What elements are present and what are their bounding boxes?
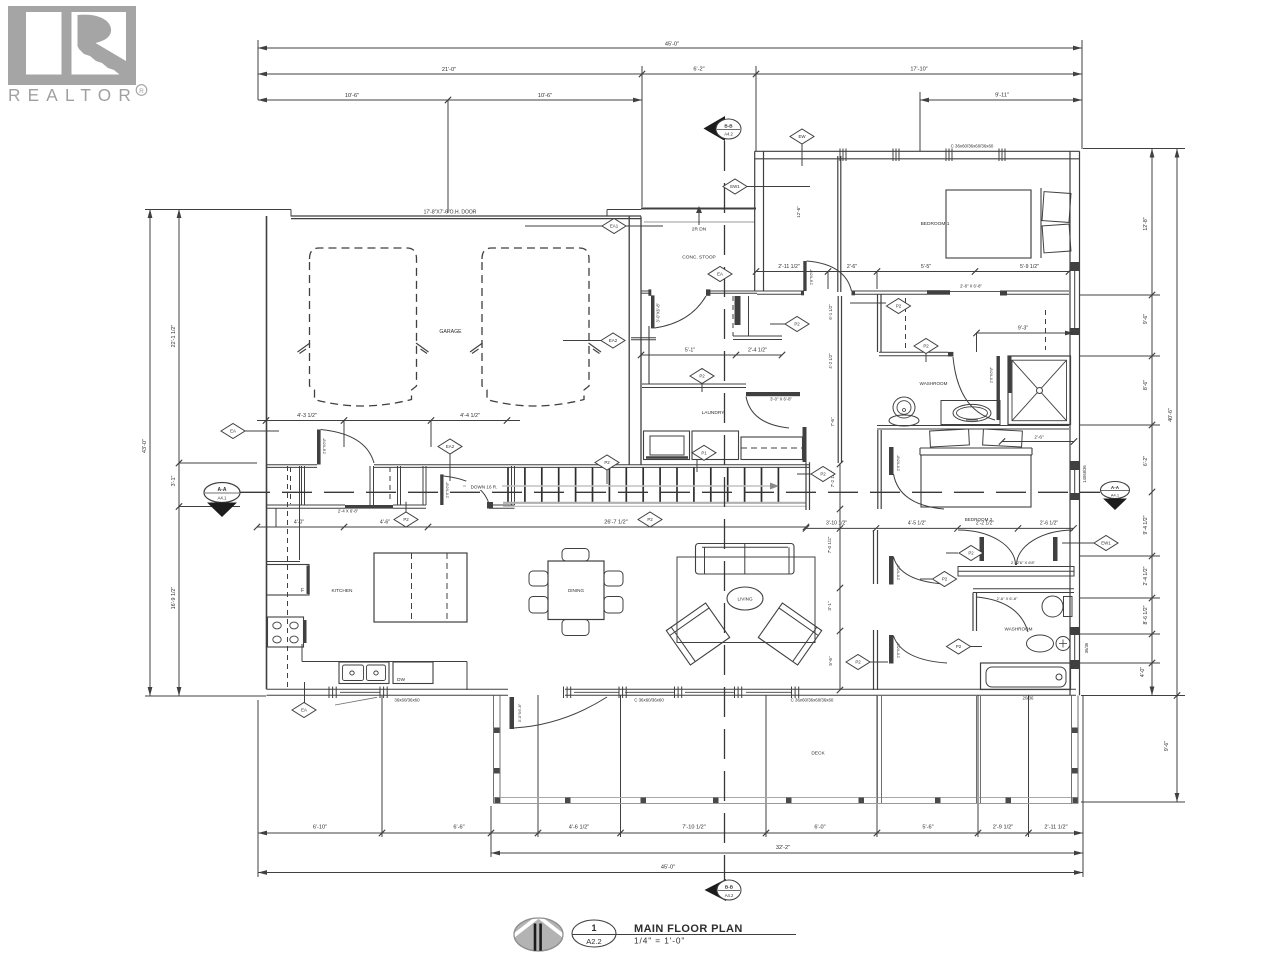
bedroom2 left wall and door (878, 430, 944, 509)
svg-text:C 36x60/36x60/36x60: C 36x60/36x60/36x60 (951, 144, 994, 149)
svg-text:P2: P2 (820, 472, 826, 477)
bedroom2 window dim 2'-6 (999, 435, 1077, 445)
svg-text:6'-6": 6'-6" (453, 825, 464, 831)
mudroom door to stairs (440, 466, 514, 505)
car 1 dashed outline (298, 248, 429, 406)
bedroom1 dim row 2'-11 1/2 etc (753, 264, 1072, 289)
svg-text:LAUNDRY: LAUNDRY (702, 410, 726, 416)
section marker A-A left (204, 483, 240, 518)
svg-text:22'-1 1/2": 22'-1 1/2" (171, 325, 177, 348)
garage top wall with O.H. door (267, 210, 642, 690)
svg-text:2'-4 1/2": 2'-4 1/2" (1143, 566, 1149, 585)
mud closet stub wall (631, 338, 656, 340)
svg-text:9'-11": 9'-11" (995, 93, 1009, 99)
svg-text:P2: P2 (942, 577, 948, 582)
marker EA stoop (708, 267, 732, 282)
svg-text:4'-5 1/2": 4'-5 1/2" (908, 521, 927, 527)
bedroom2 bed (920, 429, 1032, 507)
mudroom closet 1 (291, 466, 305, 505)
svg-text:7'-10 1/2": 7'-10 1/2" (682, 825, 706, 831)
svg-text:4'-2 1/2": 4'-2 1/2" (828, 353, 833, 369)
svg-text:P2: P2 (794, 322, 800, 327)
dim line 45'-0 top (258, 42, 1082, 51)
svg-text:P2: P2 (923, 344, 929, 349)
svg-text:4'-0": 4'-0" (1140, 667, 1146, 677)
bedroom2 closet double doors (958, 530, 1074, 576)
kitchen left counter (267, 466, 301, 688)
svg-text:MAIN FLOOR PLAN: MAIN FLOOR PLAN (634, 923, 743, 935)
svg-text:5'-1": 5'-1" (685, 348, 695, 354)
bedroom2 dim row 3'-10 1/2 etc (803, 521, 1077, 532)
svg-text:A-A: A-A (218, 487, 227, 493)
kitchen fridge (267, 565, 310, 596)
kitchen sink (339, 662, 389, 684)
washroom1 bottom wall (877, 426, 1069, 430)
svg-text:12'-6": 12'-6" (796, 206, 801, 218)
living round table (727, 587, 763, 610)
living chair 2 (758, 603, 821, 665)
svg-text:CONC. STOOP: CONC. STOOP (682, 255, 716, 261)
svg-text:P2: P2 (968, 551, 974, 556)
svg-text:3'-0" X 6'-8": 3'-0" X 6'-8" (770, 397, 792, 402)
living sofa (696, 544, 795, 575)
marker EW1 upper (723, 179, 810, 194)
interior vertical dim line x840 (827, 417, 843, 693)
bottom dim line 32'-2 (491, 845, 1083, 855)
marker P2 laundry wall (690, 369, 714, 393)
svg-text:17'-10": 17'-10" (910, 67, 927, 73)
dim line 22'-1 1/2 / 3'-1 / 16'-9 1/2 left (171, 209, 182, 696)
svg-text:EA2: EA2 (609, 338, 618, 343)
washroom1 sink (941, 401, 1000, 425)
marker P1 laundry (692, 445, 716, 472)
svg-text:6'-2": 6'-2" (693, 67, 704, 73)
garage dim 4'-3 1/2 / 4'-4 1/2 (257, 413, 520, 447)
svg-text:45'-0": 45'-0" (665, 42, 679, 48)
svg-text:R: R (139, 88, 144, 95)
svg-text:5'-6": 5'-6" (828, 656, 833, 666)
svg-text:4'-6": 4'-6" (380, 520, 390, 526)
svg-text:DINING: DINING (568, 588, 585, 593)
svg-text:3'-1": 3'-1" (827, 601, 832, 611)
kitchen stove (268, 617, 307, 647)
svg-text:7'-6": 7'-6" (830, 417, 835, 427)
REALTOR wordmark (8, 85, 147, 105)
svg-text:2'-4 X 6'-8": 2'-4 X 6'-8" (338, 509, 359, 514)
svg-text:6'-1 1/2": 6'-1 1/2" (828, 304, 833, 320)
bottom outer wall with windows (267, 687, 1077, 703)
svg-text:2'-11 1/2": 2'-11 1/2" (778, 264, 800, 270)
section marker A-A right (1101, 482, 1130, 511)
svg-text:3'-0"X6'-8": 3'-0"X6'-8" (517, 703, 522, 722)
svg-text:2'-2 1/2": 2'-2 1/2" (976, 521, 995, 527)
marker P2 mud closet (770, 317, 809, 332)
marker P2 stair bottom (638, 512, 662, 527)
marker EW top (790, 129, 814, 166)
svg-text:10'-6": 10'-6" (345, 93, 359, 99)
svg-text:WASHROOM: WASHROOM (1005, 627, 1033, 632)
svg-text:LIVING: LIVING (737, 597, 752, 602)
marker EA bottom left (292, 682, 377, 718)
svg-text:P2: P2 (956, 644, 962, 649)
marker EW1 right (1062, 536, 1118, 551)
deck structure verticals (878, 695, 981, 803)
svg-text:B-B: B-B (725, 885, 734, 890)
marker P2 hall (920, 572, 957, 587)
dining chairs (529, 549, 623, 636)
svg-text:2'-11 1/2": 2'-11 1/2" (1044, 825, 1067, 831)
svg-text:36x60/36x60: 36x60/36x60 (394, 698, 420, 703)
svg-text:45'-0": 45'-0" (661, 865, 675, 871)
right dim extension lines (1080, 149, 1185, 803)
svg-text:43'-0": 43'-0" (142, 439, 148, 453)
svg-text:P2: P2 (403, 517, 409, 522)
svg-text:5'-6": 5'-6" (922, 825, 933, 831)
svg-text:12'-8": 12'-8" (1143, 217, 1149, 230)
svg-text:EA: EA (301, 708, 307, 713)
patio door to deck (510, 697, 608, 729)
REALTOR logo block (8, 6, 136, 85)
2R DN arrow and label (692, 206, 707, 233)
title MAIN FLOOR PLAN (572, 923, 796, 946)
svg-text:16'-9 1/2": 16'-9 1/2" (171, 587, 177, 610)
washroom1 south wall with door (879, 352, 1000, 420)
svg-text:2'8"X6'8": 2'8"X6'8" (809, 268, 814, 285)
svg-text:2'6"X6'8": 2'6"X6'8" (989, 366, 994, 383)
right overall dim line 40'-6 (1164, 149, 1180, 803)
stairs direction line (463, 481, 779, 490)
svg-text:8'-6": 8'-6" (1143, 380, 1149, 390)
svg-text:2'-6": 2'-6" (1034, 435, 1044, 440)
garage right wall (629, 217, 641, 465)
svg-text:P1: P1 (701, 450, 707, 455)
marker P2 washroom1 a (850, 299, 911, 314)
svg-text:EW: EW (798, 134, 806, 139)
svg-text:P2: P2 (699, 374, 705, 379)
svg-text:P2: P2 (647, 517, 653, 522)
marker P2 garage corner (595, 455, 619, 484)
svg-text:WASHROOM: WASHROOM (920, 381, 948, 386)
deck bottom rail with posts (494, 798, 1079, 804)
section marker B-B bottom (705, 879, 742, 901)
kitchen wall stub (275, 508, 277, 527)
svg-text:21'-0": 21'-0" (442, 67, 456, 73)
svg-text:1/4" = 1'-0": 1/4" = 1'-0" (634, 936, 685, 946)
dim line 43'-0 left (142, 209, 152, 696)
svg-text:A-A: A-A (1111, 485, 1120, 490)
svg-text:DW: DW (397, 677, 405, 683)
wing top wall with windows (755, 144, 1080, 162)
stairs treads (487, 468, 806, 509)
svg-text:KITCHEN: KITCHEN (331, 588, 353, 594)
svg-text:3'-0"X6'-8": 3'-0"X6'-8" (655, 302, 660, 322)
washroom1 left wall (877, 294, 879, 352)
svg-text:A4.2: A4.2 (725, 893, 734, 898)
bottom dim extension lines (258, 695, 1083, 877)
right outer wall with windows (1070, 151, 1089, 695)
svg-text:10'-6": 10'-6" (538, 93, 552, 99)
mud dim row 5'-1 / 2'-4 1/2 (638, 348, 785, 359)
svg-text:BEDROOM 1: BEDROOM 1 (921, 221, 950, 227)
svg-text:DOWN 16 R.: DOWN 16 R. (471, 485, 498, 490)
svg-text:A4.1: A4.1 (1111, 493, 1120, 498)
svg-text:2'6"X6'8": 2'6"X6'8" (896, 454, 901, 471)
svg-text:B-B: B-B (724, 124, 733, 129)
svg-text:6'-2": 6'-2" (1143, 456, 1149, 466)
svg-text:5'-9 1/2": 5'-9 1/2" (1020, 264, 1039, 270)
hall rotated dims small (828, 304, 833, 369)
svg-text:P2: P2 (896, 304, 902, 309)
svg-text:EW1: EW1 (730, 184, 740, 189)
marker EA garage door (525, 219, 663, 234)
dim line 10'-6 / 10'-6 / 9'-11 (258, 93, 1082, 104)
right dim line segments 12'-8 etc (1140, 149, 1155, 696)
mud west wall (648, 326, 650, 384)
svg-text:9'-4 1/2": 9'-4 1/2" (1143, 515, 1149, 534)
mud dim row 4'-0 / 4'-6 / 26'-7 1/2 (254, 520, 809, 531)
north arrow icon (507, 917, 570, 952)
svg-text:EA: EA (717, 272, 723, 277)
svg-text:2'-9 1/2": 2'-9 1/2" (993, 825, 1013, 831)
svg-text:2'-8" X 6'-8": 2'-8" X 6'-8" (960, 284, 982, 289)
bedroom1 bed (946, 188, 1071, 258)
svg-text:DECK: DECK (811, 751, 825, 757)
washroom2 toilet (1042, 596, 1072, 617)
svg-text:9'-6": 9'-6" (1164, 741, 1170, 751)
svg-text:C 36x60/36x60: C 36x60/36x60 (634, 698, 664, 703)
svg-text:EW1: EW1 (1101, 541, 1111, 546)
marker EA2 garage side (563, 333, 625, 348)
svg-text:3'-1": 3'-1" (171, 476, 177, 487)
svg-text:A4.1: A4.1 (217, 496, 227, 501)
washroom1 toilet (889, 397, 919, 426)
svg-text:P2: P2 (855, 660, 861, 665)
garage door to mudroom (317, 430, 374, 465)
bedroom1 hall wall (838, 156, 842, 463)
svg-text:2'-6 1/2": 2'-6 1/2" (1040, 521, 1059, 527)
svg-text:2'-6": 2'-6" (847, 264, 857, 270)
laundry top wall and opening (642, 384, 800, 428)
svg-text:2'-6" X 6'-8": 2'-6" X 6'-8" (997, 596, 1018, 601)
svg-text:17'-8"X7'-6"O.H. DOOR: 17'-8"X7'-6"O.H. DOOR (424, 210, 477, 216)
washroom1 closet dashed (906, 298, 1046, 350)
svg-text:EA1: EA1 (610, 224, 619, 229)
kitchen bottom counter (302, 644, 467, 690)
wing west wall (754, 151, 756, 291)
mud closet walls (733, 296, 782, 340)
svg-text:A4.2: A4.2 (724, 132, 733, 137)
marker P2 mud dim (394, 502, 418, 527)
svg-text:2'8"X6'8": 2'8"X6'8" (322, 437, 327, 454)
svg-text:7'-0 1/2": 7'-0 1/2" (827, 536, 832, 553)
svg-text:5'-5": 5'-5" (921, 264, 931, 270)
bottom dim line row 1 (258, 825, 1083, 837)
section marker B-B top (704, 116, 742, 141)
laundry dryer (692, 431, 739, 460)
washroom1 shower (1008, 356, 1071, 425)
bedroom1 bottom wall with door (757, 261, 1069, 296)
laundry washer (644, 431, 690, 460)
section line A-A horizontal (240, 491, 1100, 493)
dim line 21'-0 / 6'-2 / 17'-10 (258, 67, 1082, 78)
dining table (548, 561, 604, 620)
deck left rail (494, 696, 501, 804)
deck right rail (1072, 696, 1079, 804)
svg-text:8'-6 1/2": 8'-6 1/2" (1143, 605, 1149, 624)
car 2 dashed outline (470, 248, 601, 406)
svg-text:40'-6": 40'-6" (1168, 408, 1174, 422)
kitchen dishwasher (393, 662, 433, 684)
title circle 1 A2.2 (572, 920, 616, 947)
svg-text:4'-3 1/2": 4'-3 1/2" (297, 413, 317, 419)
svg-text:9'-3": 9'-3" (1018, 326, 1028, 332)
washroom2 sink (1027, 635, 1071, 652)
hall wall lower with door (874, 630, 948, 690)
svg-text:EA2: EA2 (446, 444, 455, 449)
hall wall upper with door (874, 530, 945, 585)
marker P2 hall lower (846, 655, 888, 670)
svg-text:1: 1 (591, 923, 596, 933)
stairs right wall (805, 462, 807, 510)
svg-text:2'6"X6'8": 2'6"X6'8" (445, 481, 450, 498)
svg-text:REALTOR: REALTOR (8, 85, 138, 105)
washroom1 dim 9'-3 (973, 326, 1074, 353)
dim extension lines top (258, 40, 1082, 213)
svg-text:P2: P2 (604, 460, 610, 465)
laundry counter (741, 427, 807, 462)
garage bottom wall (267, 465, 811, 468)
marker P2 washroom1 b (914, 339, 938, 363)
svg-text:2 - 2'6" X 6'8": 2 - 2'6" X 6'8" (1011, 560, 1036, 565)
washroom2 top wall and door (973, 589, 1074, 632)
svg-text:A2.2: A2.2 (586, 937, 601, 946)
mudroom closet 2 (370, 466, 426, 505)
stoop entry door (651, 295, 706, 328)
svg-text:4'-6 1/2": 4'-6 1/2" (569, 825, 589, 831)
section line B-B vertical (724, 141, 726, 880)
svg-text:6'-0": 6'-0" (814, 825, 825, 831)
marker P2 washroom2 (947, 639, 983, 654)
svg-text:6'-10": 6'-10" (313, 825, 327, 831)
living rug outline (677, 557, 815, 643)
svg-text:32'-2": 32'-2" (776, 845, 790, 851)
svg-text:4'-4 1/2": 4'-4 1/2" (460, 413, 480, 419)
marker P2 bedroom2 closet (946, 546, 983, 561)
svg-text:36/36: 36/36 (1084, 642, 1089, 653)
svg-text:14068/36: 14068/36 (1082, 465, 1087, 483)
svg-text:2R DN: 2R DN (692, 227, 707, 233)
marker EA garage left (221, 424, 279, 439)
conc stoop walls (641, 209, 757, 296)
svg-text:F: F (301, 588, 304, 594)
svg-text:C 36x60/36x60/36x60: C 36x60/36x60/36x60 (791, 698, 834, 703)
svg-text:20/36: 20/36 (1023, 696, 1035, 701)
marker P2 stair right (797, 467, 835, 482)
svg-text:9'-6": 9'-6" (1143, 314, 1149, 324)
bottom dim line 45'-0 (258, 865, 1083, 875)
kitchen island (374, 553, 467, 622)
washroom2 tub (981, 663, 1071, 690)
living chair 1 (666, 603, 729, 665)
svg-text:26'-7 1/2": 26'-7 1/2" (604, 520, 628, 526)
svg-text:GARAGE: GARAGE (439, 329, 462, 335)
marker EA2 mud (438, 439, 462, 481)
dim extension lines left (145, 210, 291, 697)
svg-text:3'-10 1/2": 3'-10 1/2" (826, 521, 847, 527)
svg-text:EA: EA (230, 429, 236, 434)
mudroom south wall with cased opening (267, 505, 515, 514)
svg-text:2'-4 1/2": 2'-4 1/2" (748, 348, 767, 354)
